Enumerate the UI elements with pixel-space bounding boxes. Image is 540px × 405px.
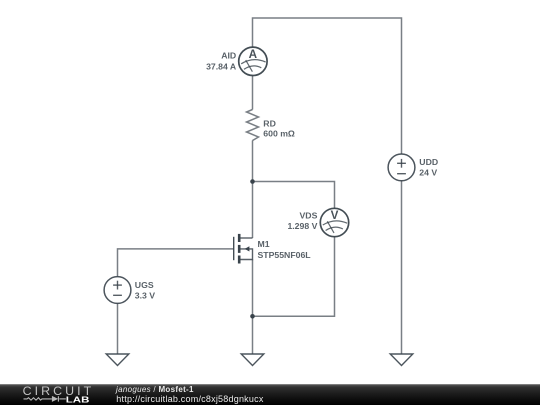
resistor RD [247,110,259,141]
node source junction [250,314,255,319]
wire voltmeter branch top [253,182,335,209]
svg-text:UGS: UGS [135,280,154,290]
svg-text:3.3 V: 3.3 V [135,291,155,301]
wire UGS to ground [117,303,119,354]
wire ammeter to resistor [252,76,254,110]
wire resistor to drain [252,141,254,239]
svg-text:24 V: 24 V [419,168,437,178]
svg-text:V: V [331,209,339,222]
svg-text:STP55NF06L: STP55NF06L [258,250,312,260]
wire source to ground [252,260,254,355]
voltage source UGS [104,277,131,304]
svg-text:LAB: LAB [66,396,90,405]
ground right [390,354,413,366]
svg-text:600 mΩ: 600 mΩ [263,129,295,139]
wire top rail [253,18,402,154]
voltmeter VDS [320,208,348,236]
ground left [106,354,129,366]
svg-text:1.298 V: 1.298 V [287,221,317,231]
wire gate [118,249,234,277]
voltage source UDD [388,154,415,181]
svg-text:M1: M1 [258,239,270,249]
CircuitLab logo [0,384,110,405]
wire UDD to ground [401,181,403,354]
svg-text:UDD: UDD [419,157,438,167]
transistor M1 [234,234,253,264]
svg-text:37.84 A: 37.84 A [206,61,237,71]
ground middle [241,354,264,366]
svg-text:A: A [249,48,258,61]
ammeter AID [239,47,267,75]
svg-text:VDS: VDS [300,211,318,221]
svg-text:AID: AID [221,51,236,61]
node drain junction [250,179,255,184]
svg-text:RD: RD [263,119,276,129]
wire voltmeter branch bottom [253,236,335,316]
